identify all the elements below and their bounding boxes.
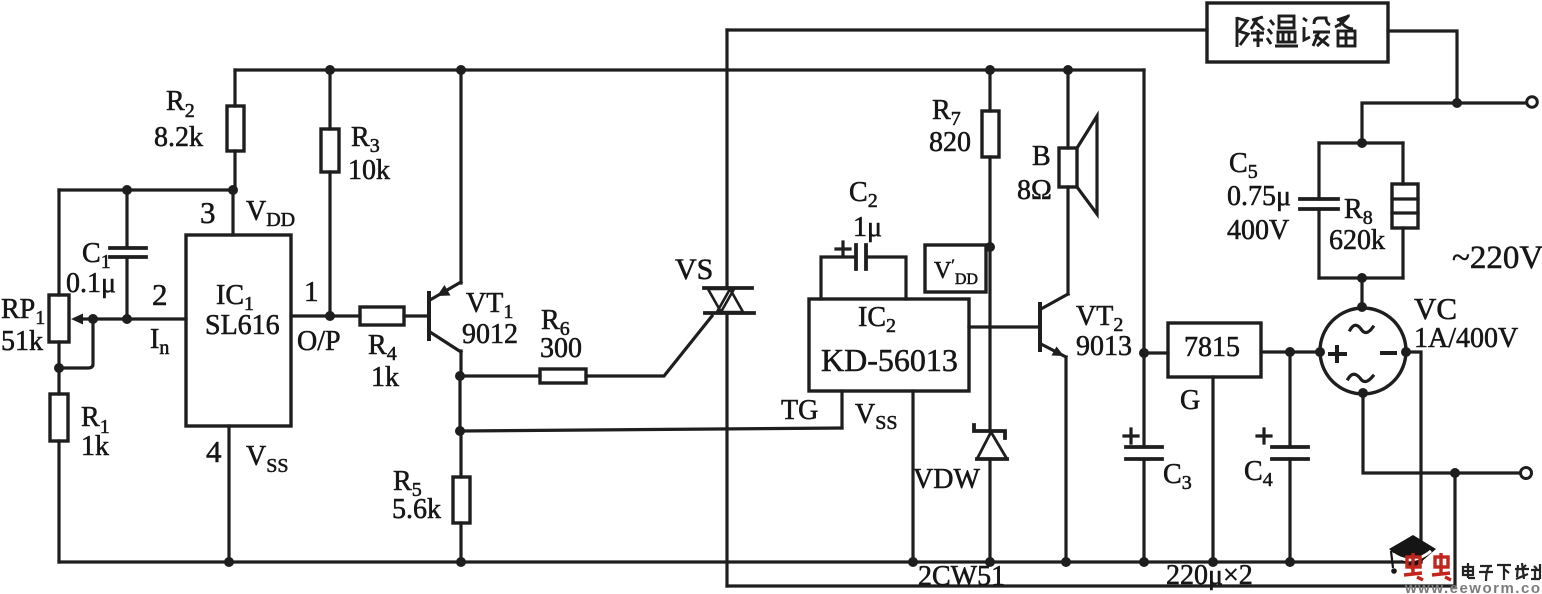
bridge rectifier VC [1315, 291, 1518, 398]
svg-text:SL616: SL616 [205, 310, 280, 341]
capacitor C2 [821, 177, 906, 299]
node C1 bottom on In wire [122, 314, 132, 324]
svg-text:VC: VC [1414, 291, 1457, 326]
svg-text:B: B [1032, 141, 1051, 172]
wire IC1 pin4 [227, 426, 230, 562]
node R2 bottom / IC1 pin3 [228, 185, 238, 195]
wire box right to mains top terminal [1388, 31, 1457, 103]
resistor R5 [392, 431, 470, 562]
capacitor C5 0.75u 400V [1227, 143, 1338, 278]
svg-text:~220V: ~220V [1452, 240, 1542, 276]
node C4 bottom on ground rail [1285, 557, 1295, 567]
svg-text:8Ω: 8Ω [1017, 175, 1052, 206]
svg-text:10k: 10k [348, 155, 390, 186]
node RP1 bottom / R1 top [54, 363, 64, 373]
node C1 top [122, 185, 132, 195]
svg-text:620k: 620k [1329, 225, 1385, 256]
wire VT1 collector to TG [460, 376, 842, 431]
svg-text:5.6k: 5.6k [392, 494, 441, 525]
svg-text:2: 2 [152, 277, 168, 312]
svg-text:9012: 9012 [462, 319, 518, 350]
resistor R4 [360, 307, 429, 393]
svg-text:www.eeworm.com: www.eeworm.com [1404, 580, 1542, 594]
capacitor C4 [1244, 352, 1308, 562]
wire IC1 pin3 [231, 190, 234, 235]
glyph bei (device) [1335, 15, 1353, 29]
wire to bridge [1360, 278, 1363, 308]
wire IC2 VSS pin [911, 391, 914, 562]
node speaker top on VDD rail [1063, 65, 1073, 75]
wire IC2 TG pin [840, 391, 843, 428]
wire ground rail [59, 560, 1421, 563]
resistor R3 [321, 70, 390, 316]
node 7815 G pin on ground rail [1208, 557, 1218, 567]
svg-text:1k: 1k [81, 431, 109, 462]
capacitor C3 [1124, 429, 1192, 494]
node VDW anode on ground rail [985, 557, 995, 567]
node mains bottom junction [1450, 468, 1460, 478]
watermark [1389, 535, 1542, 594]
node VT1 emitter on VDD rail [456, 65, 466, 75]
glyph wen (temperature) [1267, 20, 1274, 44]
wire regulated supply vertical (rail to 7815 input / C3) [1142, 70, 1145, 562]
capacitor C1 [66, 190, 146, 319]
wire bridge minus to ground rail [1406, 352, 1421, 562]
svg-text:VS: VS [675, 253, 713, 286]
svg-text:1: 1 [304, 276, 319, 308]
wire VDD top rail [235, 68, 1144, 71]
resistor R7 [929, 70, 999, 431]
node C3 bottom on ground rail [1139, 557, 1149, 567]
triac VS [675, 30, 754, 586]
node mains top junction [1452, 98, 1462, 108]
wire left branch vertical (RP1/R1) [57, 190, 60, 562]
wire bridge bottom to mains bottom [1363, 393, 1519, 473]
wire mains top line [1362, 103, 1525, 143]
svg-text:3: 3 [200, 195, 216, 230]
terminal mains bottom [1521, 468, 1532, 479]
svg-text:0.1μ: 0.1μ [66, 268, 116, 299]
node R5 top / TG wire [455, 426, 465, 436]
resistor R6 [460, 305, 712, 383]
wire IC1 output to R4 [291, 314, 360, 317]
node C5R8 bottom [1357, 273, 1367, 283]
node R5 bottom on ground rail [456, 557, 466, 567]
wire C5/R8 parallel block frame [1319, 143, 1403, 278]
svg-text:51k: 51k [1, 326, 43, 357]
svg-text:8.2k: 8.2k [154, 122, 203, 153]
resistor R8 620k [1329, 143, 1418, 278]
svg-text:300: 300 [540, 333, 582, 364]
zener diode VDW [913, 425, 1007, 562]
terminal mains top [1527, 97, 1538, 108]
node IC1 pin4 on ground rail [224, 557, 234, 567]
node VT1 collector / R6 [455, 371, 465, 381]
node R7 top on VDD rail [985, 65, 995, 75]
speaker B 8ohm [1017, 70, 1097, 294]
resistor R1 [50, 394, 110, 462]
svg-text:VDW: VDW [913, 464, 980, 495]
node 7815 input [1139, 348, 1149, 358]
wire mains bottom rail [727, 584, 1453, 587]
svg-text:KD-56013: KD-56013 [821, 342, 958, 378]
op-amp IC1 SL616 [186, 235, 291, 426]
potentiometer RP1 [1, 294, 186, 368]
svg-text:1μ: 1μ [853, 212, 882, 243]
svg-text:O/P: O/P [297, 326, 341, 357]
cooling device box (jiangwen shebei) [1207, 3, 1388, 62]
svg-text:400V: 400V [1227, 215, 1289, 246]
V'DD box [925, 245, 986, 292]
svg-text:TG: TG [781, 395, 818, 426]
transistor VT1 9012 [429, 70, 518, 376]
transistor VT2 9013 [969, 294, 1132, 562]
node R7/V'DD junction [985, 242, 995, 252]
svg-text:1A/400V: 1A/400V [1414, 323, 1518, 354]
IC2 KD-56013 [809, 299, 969, 391]
node R3 top on VDD rail [325, 65, 335, 75]
svg-text:1k: 1k [371, 362, 399, 393]
svg-text:820: 820 [929, 127, 971, 158]
node C4 tap [1285, 347, 1295, 357]
node R3 bottom on O/P wire [325, 311, 335, 321]
glyph jiang (descend) [1237, 17, 1248, 47]
node RP1 wiper tie [88, 314, 98, 324]
graduation cap [1389, 535, 1436, 570]
node IC2 VSS on ground rail [908, 557, 918, 567]
wire top-left horizontal (C1/R2 node) [59, 188, 235, 191]
regulator 7815 [1144, 323, 1320, 562]
wire triac to cooling-device box [727, 28, 1207, 31]
resistor R2 [154, 70, 244, 190]
wire junction down to mains rail [1453, 473, 1456, 586]
svg-text:G: G [1180, 385, 1200, 416]
node C5R8 top [1357, 138, 1367, 148]
svg-text:4: 4 [206, 434, 222, 469]
svg-text:9013: 9013 [1076, 331, 1132, 362]
node VT2 emitter on ground rail [1061, 557, 1071, 567]
svg-text:7815: 7815 [1184, 332, 1240, 363]
red chongchong characters [1404, 553, 1451, 580]
glyph she (equip) [1303, 18, 1310, 40]
dianzi xiazaizhan text [1463, 563, 1540, 581]
svg-text:0.75μ: 0.75μ [1227, 181, 1291, 212]
